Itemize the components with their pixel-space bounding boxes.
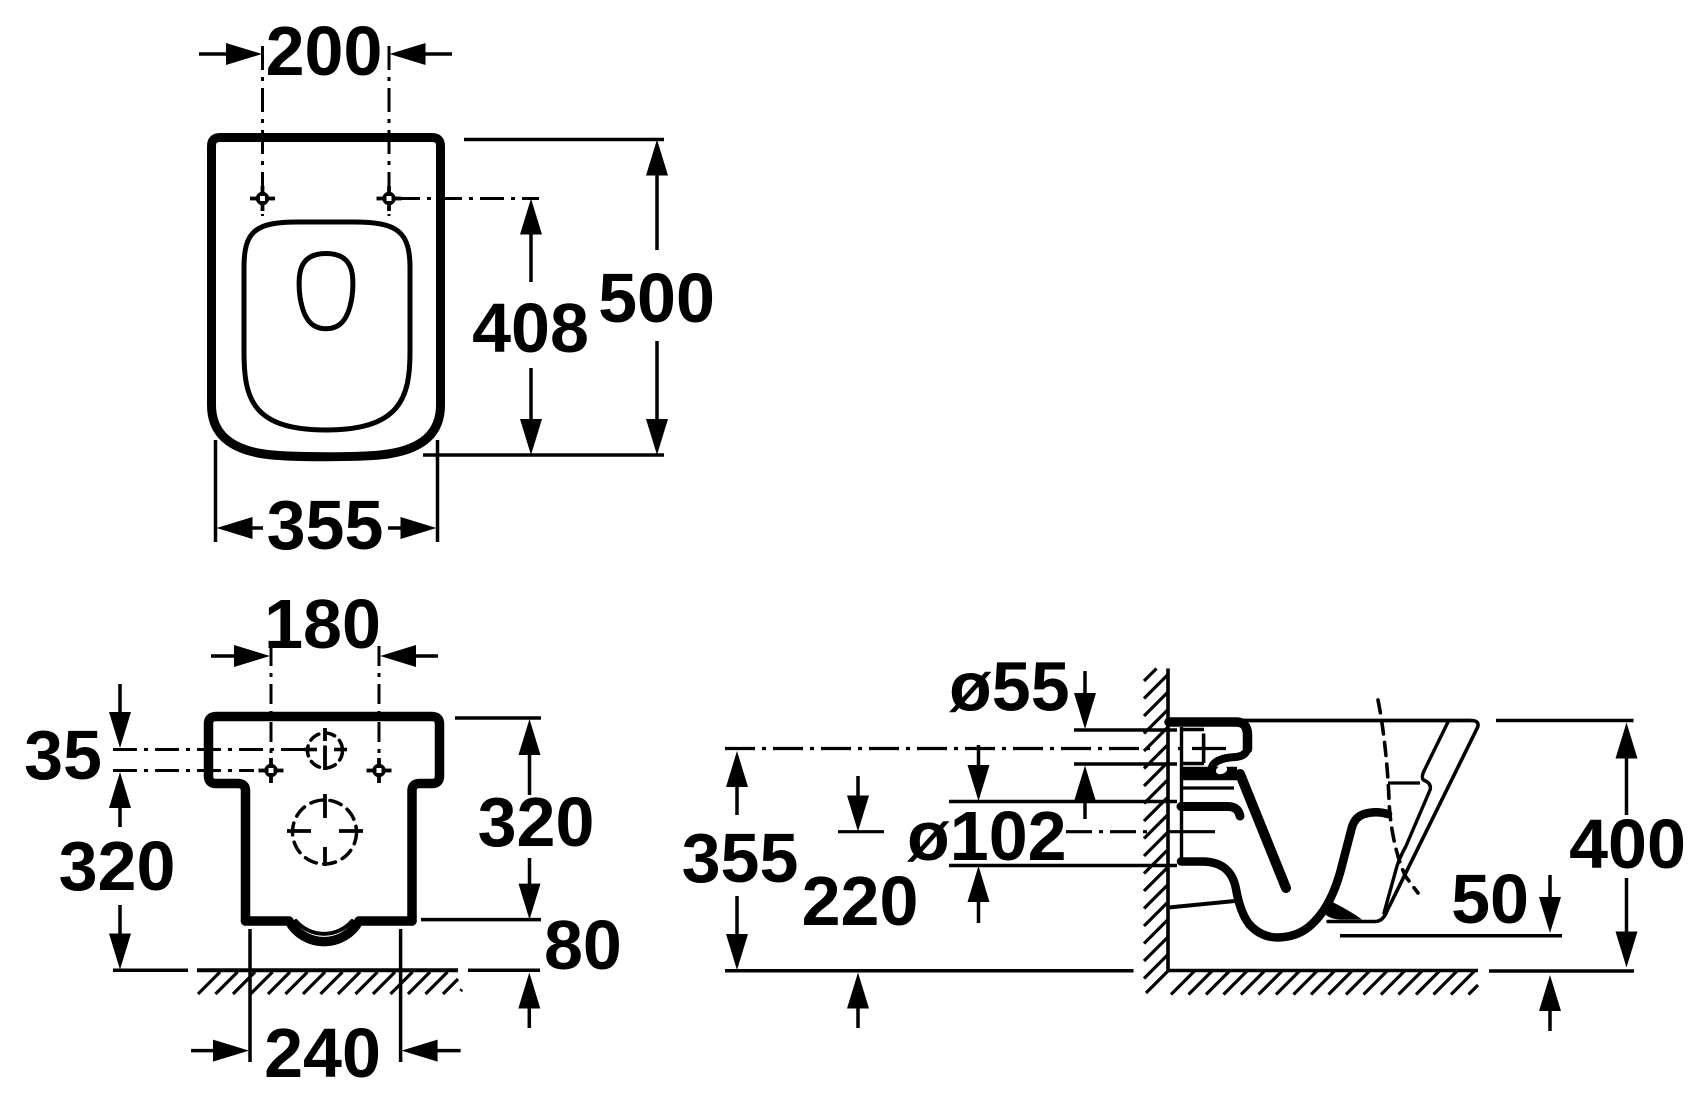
rear dash-dot horizontal upper (35) <box>113 748 305 751</box>
profile outer shell, trap U and bowl front wall <box>1181 812 1388 937</box>
wall hatch <box>1144 669 1168 994</box>
dimension 220 <box>802 776 919 1028</box>
dimension 35 down arrow <box>118 684 122 714</box>
profile top rim thick <box>1169 722 1248 749</box>
o102 bottom extension line <box>949 864 1177 867</box>
rear o102 ticks <box>287 829 311 833</box>
plan flush oval <box>299 254 353 329</box>
profile thick band A <box>1181 767 1237 781</box>
o55 bottom extension line <box>1074 762 1177 765</box>
dimension 355 <box>217 486 437 564</box>
dimension 240 right extension <box>399 929 403 1062</box>
dimension 408 <box>472 199 589 456</box>
svg-text:355: 355 <box>267 486 384 564</box>
o102 top extension line <box>949 800 1177 803</box>
dimension 355 right extension line <box>436 440 440 542</box>
rear center vertical dash-dot <box>323 728 327 866</box>
floor line left <box>725 969 1134 973</box>
dimension 240 right arrow <box>437 1049 461 1053</box>
rear centerline vertical left (180) <box>270 646 273 753</box>
rear ground hatch <box>198 972 462 994</box>
svg-text:220: 220 <box>802 862 919 940</box>
rear fixing hole left <box>259 758 284 783</box>
rear drain inner arc <box>296 921 352 934</box>
dimension 180 left arrow <box>211 654 235 658</box>
svg-text:355: 355 <box>682 819 799 897</box>
svg-text:ø102: ø102 <box>907 797 1067 875</box>
profile bottom back thin line <box>1169 901 1241 908</box>
dimension 500 <box>598 140 715 456</box>
dimension o55 down arrow <box>1083 671 1087 694</box>
profile thin line below band A <box>1181 786 1234 789</box>
profile back thin vertical <box>1180 727 1183 858</box>
plan fixing hole right <box>377 186 402 211</box>
dimension o102 down arrow <box>977 745 981 766</box>
profile thick band B <box>1181 807 1240 817</box>
svg-text:320: 320 <box>59 827 176 905</box>
dimension 80 up arrow <box>518 973 540 1009</box>
dimension 180 right arrow <box>416 654 438 658</box>
dimension o55 up arrow <box>1074 766 1096 802</box>
dimension 240 left extension <box>248 929 252 1062</box>
o102 axis tick left <box>838 830 884 833</box>
plan seat ring <box>244 222 410 430</box>
rear dashed circle o55 <box>308 733 343 768</box>
main axis dash-dot <box>725 747 1150 750</box>
o102 axis dash-dot <box>1066 830 1148 833</box>
dimension 50 down arrow <box>1548 875 1552 898</box>
svg-text:50: 50 <box>1451 860 1529 938</box>
o102 axis inside wall <box>1168 830 1215 833</box>
plan centerline left vertical <box>261 46 264 216</box>
dimension 355 left extension line <box>214 440 218 542</box>
dimension 400 top extension <box>1496 719 1634 723</box>
profile top thin line <box>1241 719 1471 723</box>
svg-text:200: 200 <box>266 12 383 90</box>
outlet cross vertical <box>1202 734 1206 764</box>
svg-text:320: 320 <box>478 783 595 861</box>
profile seal hook <box>1212 750 1247 767</box>
dimension 355 side <box>682 751 799 970</box>
o55 pipe top inside <box>1181 728 1204 731</box>
dimension 240 left arrow <box>191 1049 214 1053</box>
wall line <box>1166 669 1170 971</box>
rear o55 ticks <box>304 748 317 752</box>
floor hatch <box>1171 971 1478 995</box>
seat profile outer thin <box>1241 721 1478 922</box>
dimension 320 left down arrow <box>118 905 122 934</box>
dimension 320 right <box>478 719 595 920</box>
profile bowl back diagonal <box>1240 774 1286 888</box>
svg-text:400: 400 <box>1569 805 1686 883</box>
plan outer outline <box>212 138 441 457</box>
dimension 200 right arrow <box>421 52 452 56</box>
svg-text:80: 80 <box>544 906 622 984</box>
dimension 35 up arrow <box>109 772 131 808</box>
dimension 80 ground extension <box>468 968 540 972</box>
svg-text:500: 500 <box>598 259 715 337</box>
dimension o102 up arrow <box>968 866 990 902</box>
seat nib horizontal line <box>1388 781 1420 784</box>
floor line right <box>1168 969 1478 973</box>
dimension 400 bottom extension <box>1489 969 1634 973</box>
rear dash-dot horizontal lower (35) <box>113 769 254 772</box>
rear outline <box>209 717 440 922</box>
outlet cross horizontal dot <box>1178 747 1182 750</box>
profile seal notch <box>1215 764 1229 775</box>
svg-text:408: 408 <box>472 289 589 367</box>
rear bottom edge with drain arc <box>246 921 413 942</box>
dimension 500/408 bottom extension line <box>423 453 664 457</box>
dimension 200 left arrow <box>199 52 230 56</box>
dimension 320 right bottom extension <box>421 918 541 922</box>
hidden trap dashed curve <box>1378 700 1418 893</box>
floor up arrow right <box>1539 975 1561 1011</box>
plan fixing hole left <box>250 186 275 211</box>
o55 top extension line <box>1074 728 1177 731</box>
svg-text:180: 180 <box>264 585 381 663</box>
seat profile inner thin <box>1384 722 1448 913</box>
o55 pipe bottom inside <box>1181 762 1204 765</box>
profile front foot <box>1324 899 1362 920</box>
plan centerline horizontal to 408 <box>396 197 539 200</box>
outlet cross horizontal <box>1192 747 1226 750</box>
rear dashed circle o102 <box>293 800 357 864</box>
rear ground line <box>113 969 188 973</box>
svg-text:35: 35 <box>24 716 102 794</box>
dimension 400 <box>1569 723 1686 968</box>
rear fixing hole right <box>367 758 392 783</box>
plan centerline right vertical <box>388 46 391 216</box>
dimension 320 right top extension <box>455 716 541 720</box>
svg-text:ø55: ø55 <box>949 648 1070 726</box>
svg-text:240: 240 <box>264 1014 381 1092</box>
bowl underside 50 line <box>1340 934 1562 938</box>
rear centerline vertical right (180) <box>378 646 381 753</box>
dimension 500 top extension line <box>464 138 664 142</box>
